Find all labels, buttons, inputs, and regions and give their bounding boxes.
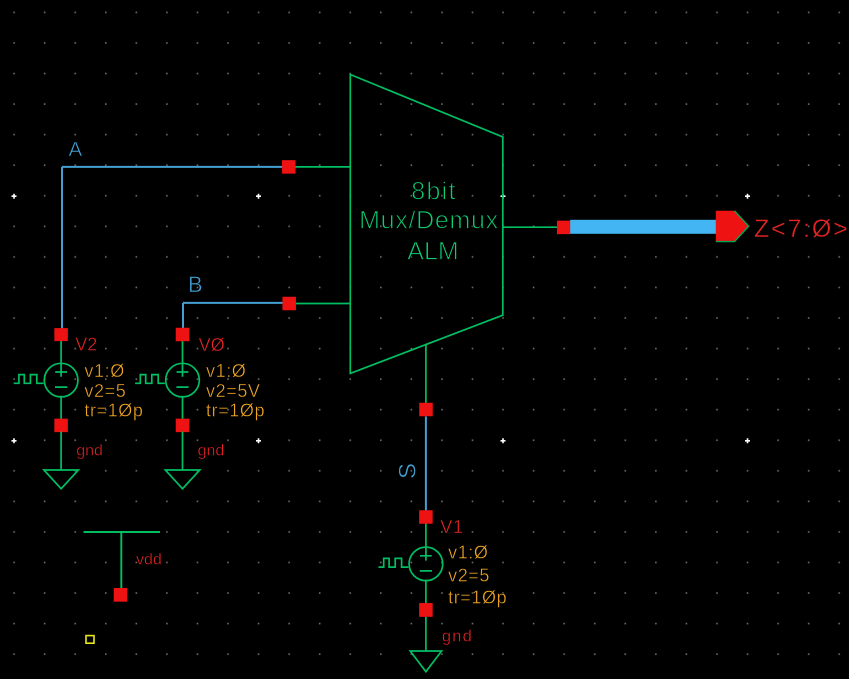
svg-text:Z<7:Ø>: Z<7:Ø> (754, 215, 849, 243)
svg-text:v1:Ø: v1:Ø (206, 361, 246, 381)
wide bus wire Z (570, 220, 718, 234)
pin square V0 plus (176, 328, 190, 342)
wire V2 to ground (60, 432, 62, 471)
svg-text:Mux/Demux: Mux/Demux (359, 207, 499, 235)
mux input stub A (289, 166, 350, 168)
svg-text:v2=5: v2=5 (84, 381, 126, 401)
wire V1 to ground (425, 617, 427, 651)
mux input stub B (289, 303, 350, 305)
svg-text:tr=1Øp: tr=1Øp (206, 401, 265, 421)
pin square vdd (114, 588, 128, 602)
voltage source V1 (379, 524, 443, 604)
svg-text:S: S (395, 463, 422, 479)
svg-text:VØ: VØ (199, 335, 225, 355)
ground symbol below V1 (410, 651, 441, 672)
voltage source V0 (135, 341, 199, 420)
pin square at S port (419, 403, 433, 417)
pin square V2 plus (54, 328, 68, 341)
ground symbol below V0 (165, 470, 200, 489)
svg-text:gnd: gnd (76, 443, 103, 460)
V1 value labels (448, 543, 507, 608)
svg-text:gnd: gnd (442, 628, 473, 646)
output port arrow Z (716, 211, 749, 242)
voltage source V2 (14, 341, 78, 420)
svg-text:8bit: 8bit (411, 178, 457, 206)
V0 value labels (206, 361, 265, 421)
grid major markers (12, 194, 751, 444)
svg-text:B: B (188, 272, 203, 297)
wire net S (395, 417, 426, 512)
svg-text:v1:Ø: v1:Ø (84, 361, 124, 381)
svg-text:v2=5V: v2=5V (206, 381, 261, 401)
mux output stub (503, 226, 558, 228)
svg-text:vdd: vdd (136, 551, 162, 568)
svg-text:V1: V1 (440, 517, 464, 537)
V2 value labels (84, 361, 143, 421)
origin marker square (86, 636, 94, 644)
svg-text:tr=1Øp: tr=1Øp (84, 401, 143, 421)
pin square at B input (282, 297, 296, 311)
svg-text:v2=5: v2=5 (448, 566, 490, 586)
pin square V0 minus (176, 419, 190, 433)
ground symbol below V2 (44, 470, 79, 489)
svg-text:A: A (69, 138, 83, 161)
mux select stub S (425, 345, 427, 404)
svg-text:ALM: ALM (407, 237, 458, 265)
svg-text:v1:Ø: v1:Ø (448, 543, 488, 563)
pin square at A input (282, 160, 296, 174)
pin square V1 minus (419, 603, 433, 617)
pin square V2 minus (54, 419, 68, 433)
wire net A (62, 138, 285, 330)
svg-text:tr=1Øp: tr=1Øp (448, 588, 507, 608)
svg-text:gnd: gnd (198, 443, 225, 460)
svg-text:V2: V2 (75, 335, 97, 355)
pin square V1 plus (419, 510, 433, 524)
vdd supply symbol (84, 532, 161, 588)
pin square at output (557, 221, 571, 235)
wire net B (183, 272, 285, 329)
mux/demux block U0 body (350, 75, 503, 374)
wire V0 to ground (182, 432, 184, 471)
